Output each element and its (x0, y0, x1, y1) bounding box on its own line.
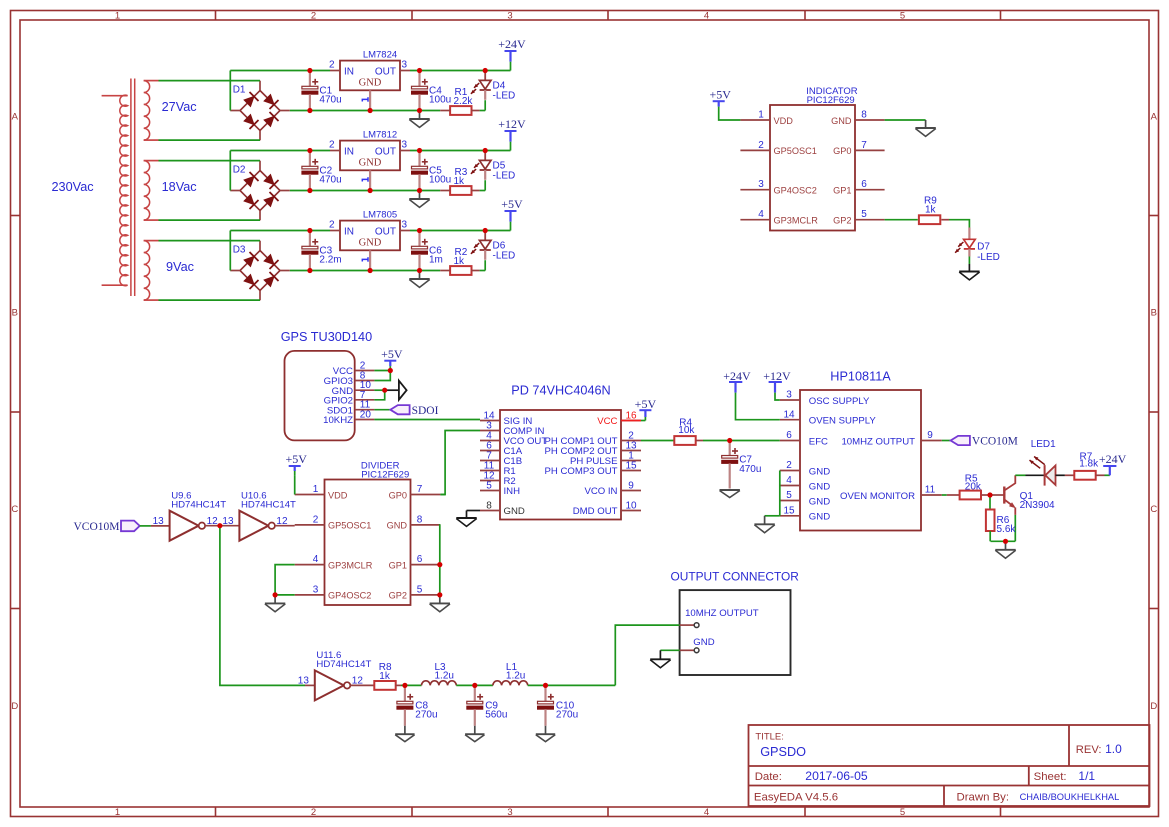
svg-text:GND: GND (504, 506, 525, 517)
svg-text:10MHZ OUTPUT: 10MHZ OUTPUT (685, 608, 759, 619)
svg-text:LM7824: LM7824 (363, 49, 397, 60)
svg-text:HP10811A: HP10811A (830, 370, 891, 384)
svg-text:-LED: -LED (977, 252, 1000, 263)
svg-text:OVEN SUPPLY: OVEN SUPPLY (809, 416, 877, 427)
svg-text:-LED: -LED (493, 170, 516, 181)
svg-text:GP0: GP0 (833, 146, 851, 156)
svg-text:+24V: +24V (498, 37, 526, 51)
svg-text:1k: 1k (454, 176, 466, 187)
svg-text:5: 5 (861, 209, 867, 220)
svg-text:+5V: +5V (635, 397, 657, 411)
svg-text:270u: 270u (415, 710, 437, 721)
svg-text:1: 1 (313, 484, 319, 495)
svg-text:D1: D1 (233, 85, 246, 96)
svg-text:5: 5 (486, 481, 492, 492)
svg-text:4: 4 (758, 209, 764, 220)
svg-text:GND: GND (359, 237, 382, 248)
svg-text:VCO10M: VCO10M (73, 521, 119, 533)
svg-text:OSC SUPPLY: OSC SUPPLY (809, 396, 870, 407)
svg-text:20k: 20k (965, 481, 982, 492)
svg-text:GP1: GP1 (833, 186, 851, 196)
svg-text:270u: 270u (556, 710, 578, 721)
svg-text:10KHZ: 10KHZ (323, 415, 353, 426)
svg-text:470u: 470u (319, 95, 341, 106)
svg-text:D: D (11, 701, 18, 712)
svg-text:INH: INH (504, 486, 521, 497)
svg-text:-LED: -LED (493, 90, 516, 101)
svg-text:B: B (1151, 307, 1157, 318)
svg-text:+5V: +5V (709, 87, 731, 101)
svg-text:4: 4 (704, 807, 709, 818)
svg-text:GND: GND (831, 116, 852, 126)
svg-text:3: 3 (507, 11, 512, 22)
svg-text:C: C (1150, 504, 1157, 515)
svg-text:GP2: GP2 (389, 591, 407, 601)
svg-text:2.2k: 2.2k (454, 96, 474, 107)
svg-text:5: 5 (900, 11, 905, 22)
svg-text:100u: 100u (429, 95, 451, 106)
svg-text:1k: 1k (925, 205, 937, 216)
svg-text:LM7812: LM7812 (363, 129, 397, 140)
svg-text:+5V: +5V (381, 347, 403, 361)
svg-text:18Vac: 18Vac (162, 180, 198, 194)
svg-text:EFC: EFC (809, 436, 828, 447)
svg-text:IN: IN (344, 226, 354, 237)
svg-text:2: 2 (329, 60, 335, 71)
svg-text:13: 13 (222, 516, 234, 527)
svg-text:7: 7 (861, 140, 867, 151)
svg-text:C: C (11, 504, 18, 515)
svg-text:DMD OUT: DMD OUT (573, 506, 618, 517)
svg-text:GND: GND (693, 637, 714, 648)
svg-text:15: 15 (625, 461, 637, 472)
svg-text:GPSDO: GPSDO (760, 745, 806, 759)
svg-text:OUT: OUT (375, 146, 396, 157)
svg-text:EasyEDA V4.5.6: EasyEDA V4.5.6 (754, 791, 838, 803)
svg-text:LM7805: LM7805 (363, 209, 397, 220)
svg-text:OUT: OUT (375, 66, 396, 77)
svg-text:4: 4 (786, 475, 792, 486)
svg-text:CHAIB/BOUKHELKHAL: CHAIB/BOUKHELKHAL (1020, 792, 1120, 802)
svg-text:2: 2 (313, 514, 319, 525)
svg-text:GP1: GP1 (389, 560, 407, 570)
svg-text:-LED: -LED (493, 250, 516, 261)
svg-text:2: 2 (311, 807, 316, 818)
svg-text:D7: D7 (977, 241, 990, 252)
svg-text:2: 2 (329, 140, 335, 151)
svg-text:VDD: VDD (774, 116, 794, 126)
svg-text:1.0: 1.0 (1105, 742, 1122, 756)
svg-text:7: 7 (417, 484, 423, 495)
svg-text:3: 3 (402, 220, 408, 231)
svg-text:2017-06-05: 2017-06-05 (805, 769, 868, 783)
svg-text:A: A (1151, 111, 1158, 122)
svg-text:1: 1 (115, 807, 120, 818)
svg-text:VCO IN: VCO IN (584, 486, 617, 497)
svg-text:230Vac: 230Vac (52, 180, 95, 194)
svg-text:13: 13 (153, 516, 165, 527)
svg-text:10k: 10k (678, 425, 695, 436)
svg-text:VCO10M: VCO10M (972, 436, 1018, 448)
svg-text:2: 2 (786, 460, 792, 471)
svg-text:1.8k: 1.8k (1079, 459, 1099, 470)
svg-text:IN: IN (344, 66, 354, 77)
svg-text:Date:: Date: (755, 771, 782, 783)
svg-text:GP2: GP2 (833, 216, 851, 226)
svg-text:6: 6 (786, 430, 792, 441)
svg-text:OUTPUT CONNECTOR: OUTPUT CONNECTOR (671, 570, 800, 584)
svg-text:IN: IN (344, 146, 354, 157)
svg-text:GND: GND (809, 512, 830, 523)
svg-text:14: 14 (783, 409, 795, 420)
svg-text:GP4OSC2: GP4OSC2 (774, 186, 817, 196)
svg-text:B: B (12, 307, 18, 318)
svg-text:VDD: VDD (328, 490, 348, 500)
svg-text:Sheet:: Sheet: (1034, 771, 1067, 783)
svg-text:3: 3 (758, 179, 764, 190)
svg-text:6: 6 (417, 554, 423, 565)
svg-text:2: 2 (329, 220, 335, 231)
svg-text:GP3MCLR: GP3MCLR (328, 560, 373, 570)
svg-text:GND: GND (809, 466, 830, 477)
svg-text:D2: D2 (233, 165, 246, 176)
svg-text:2: 2 (758, 140, 764, 151)
svg-text:TITLE:: TITLE: (755, 732, 784, 743)
svg-text:1: 1 (115, 11, 120, 22)
svg-text:9: 9 (628, 481, 634, 492)
svg-text:3: 3 (402, 140, 408, 151)
svg-text:8: 8 (417, 514, 423, 525)
svg-text:+24V: +24V (1099, 452, 1127, 466)
svg-text:D3: D3 (233, 245, 246, 256)
svg-text:OVEN MONITOR: OVEN MONITOR (840, 491, 915, 502)
svg-text:GPS TU30D140: GPS TU30D140 (281, 330, 372, 344)
svg-text:LED1: LED1 (1031, 439, 1056, 450)
svg-text:GND: GND (359, 157, 382, 168)
svg-text:HD74HC14T: HD74HC14T (241, 500, 296, 511)
svg-text:9Vac: 9Vac (166, 260, 195, 274)
svg-text:1m: 1m (429, 255, 443, 266)
svg-text:5.6k: 5.6k (997, 524, 1017, 535)
svg-text:PH COMP3 OUT: PH COMP3 OUT (544, 466, 617, 477)
svg-text:6: 6 (861, 179, 867, 190)
svg-text:4: 4 (704, 11, 709, 22)
svg-text:GP5OSC1: GP5OSC1 (774, 146, 817, 156)
svg-text:15: 15 (783, 505, 795, 516)
svg-text:GND: GND (387, 521, 408, 531)
svg-text:1.2u: 1.2u (506, 670, 525, 681)
svg-text:1k: 1k (379, 671, 391, 682)
svg-text:3: 3 (507, 807, 512, 818)
svg-text:9: 9 (927, 430, 933, 441)
svg-text:PIC12F629: PIC12F629 (361, 470, 409, 481)
svg-text:20: 20 (360, 410, 372, 421)
svg-text:1: 1 (758, 109, 764, 120)
svg-text:HD74HC14T: HD74HC14T (171, 500, 226, 511)
svg-text:GP5OSC1: GP5OSC1 (328, 521, 371, 531)
svg-text:13: 13 (298, 676, 310, 687)
svg-text:Drawn By:: Drawn By: (957, 791, 1010, 803)
svg-text:HD74HC14T: HD74HC14T (316, 659, 371, 670)
svg-text:SDOI: SDOI (412, 405, 439, 417)
svg-text:PD 74VHC4046N: PD 74VHC4046N (511, 384, 610, 398)
svg-text:3: 3 (786, 390, 792, 401)
svg-text:GP0: GP0 (389, 490, 407, 500)
svg-text:5: 5 (900, 807, 905, 818)
svg-text:PIC12F629: PIC12F629 (807, 95, 855, 106)
svg-text:5: 5 (786, 490, 792, 501)
svg-text:OUT: OUT (375, 226, 396, 237)
svg-text:10: 10 (625, 501, 637, 512)
svg-text:3: 3 (313, 584, 319, 595)
svg-text:27Vac: 27Vac (162, 100, 198, 114)
svg-text:GND: GND (809, 481, 830, 492)
svg-text:560u: 560u (485, 710, 507, 721)
svg-text:4: 4 (313, 554, 319, 565)
svg-text:1k: 1k (454, 256, 466, 267)
svg-text:2N3904: 2N3904 (1020, 500, 1055, 511)
svg-text:A: A (12, 111, 19, 122)
svg-text:2.2m: 2.2m (319, 255, 341, 266)
svg-text:8: 8 (861, 109, 867, 120)
svg-text:8: 8 (486, 501, 492, 512)
svg-text:GP3MCLR: GP3MCLR (774, 216, 819, 226)
svg-text:+12V: +12V (498, 117, 526, 131)
svg-text:470u: 470u (319, 175, 341, 186)
svg-text:GP4OSC2: GP4OSC2 (328, 591, 371, 601)
svg-text:+5V: +5V (285, 452, 307, 466)
svg-text:GND: GND (809, 496, 830, 507)
svg-text:5: 5 (417, 584, 423, 595)
svg-text:1.2u: 1.2u (435, 670, 454, 681)
svg-text:REV:: REV: (1076, 744, 1102, 756)
svg-text:100u: 100u (429, 175, 451, 186)
svg-text:+5V: +5V (501, 197, 523, 211)
svg-text:D: D (1150, 701, 1157, 712)
svg-text:2: 2 (311, 11, 316, 22)
svg-text:470u: 470u (739, 464, 761, 475)
svg-text:11: 11 (925, 485, 936, 496)
svg-text:1/1: 1/1 (1078, 769, 1095, 783)
svg-text:VCC: VCC (597, 416, 617, 427)
svg-text:10MHZ OUTPUT: 10MHZ OUTPUT (841, 436, 915, 447)
svg-text:GND: GND (359, 77, 382, 88)
svg-text:3: 3 (402, 60, 408, 71)
